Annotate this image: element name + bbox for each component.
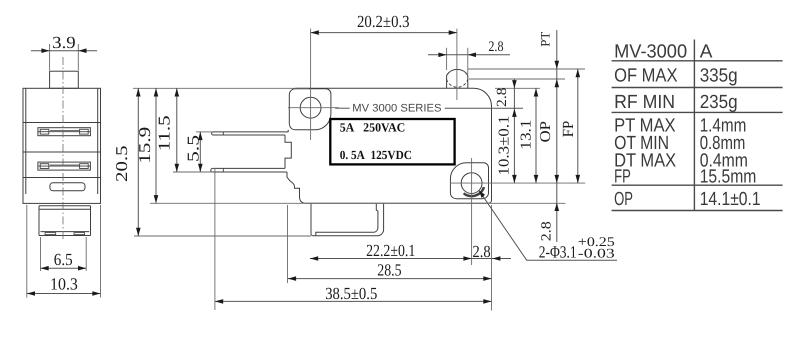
svg-text:10.3±0.1: 10.3±0.1 [496, 116, 512, 176]
svg-text:2.8: 2.8 [473, 242, 491, 261]
svg-text:13.1: 13.1 [518, 120, 534, 150]
svg-text:-0.03: -0.03 [578, 246, 616, 261]
svg-text:5A 250VAC: 5A 250VAC [340, 121, 406, 135]
svg-text:20.5: 20.5 [112, 145, 131, 182]
svg-text:A: A [700, 41, 713, 62]
svg-text:2.8: 2.8 [540, 221, 555, 241]
svg-text:OP: OP [614, 189, 633, 210]
svg-text:FP: FP [560, 121, 577, 138]
svg-text:22.2±0.1: 22.2±0.1 [366, 241, 415, 260]
svg-text:10.3: 10.3 [50, 275, 78, 294]
svg-text:15.9: 15.9 [135, 127, 154, 164]
svg-text:335g: 335g [700, 65, 738, 86]
svg-text:20.2±0.3: 20.2±0.3 [357, 12, 410, 31]
svg-text:2-Φ3.1: 2-Φ3.1 [539, 242, 577, 261]
svg-text:RF MIN: RF MIN [614, 92, 675, 113]
svg-text:2.8: 2.8 [495, 88, 510, 107]
svg-text:OF MAX: OF MAX [614, 65, 678, 86]
svg-text:PT: PT [538, 32, 553, 47]
svg-text:FP: FP [614, 167, 631, 188]
svg-text:28.5: 28.5 [377, 260, 401, 279]
svg-text:6.5: 6.5 [54, 250, 73, 269]
svg-text:235g: 235g [700, 92, 738, 113]
svg-text:0. 5A 125VDC: 0. 5A 125VDC [340, 148, 412, 162]
svg-text:MV-3000: MV-3000 [614, 41, 687, 62]
svg-text:2.8: 2.8 [488, 39, 503, 55]
svg-text:14.1±0.1: 14.1±0.1 [700, 189, 761, 210]
svg-text:3.9: 3.9 [52, 33, 76, 52]
svg-text:11.5: 11.5 [154, 115, 173, 151]
svg-text:OP: OP [538, 121, 554, 142]
svg-text:15.5mm: 15.5mm [700, 167, 757, 188]
svg-text:5.5: 5.5 [183, 135, 202, 162]
svg-text:38.5±0.5: 38.5±0.5 [325, 284, 377, 303]
svg-text:MV 3000 SERIES: MV 3000 SERIES [352, 102, 441, 114]
